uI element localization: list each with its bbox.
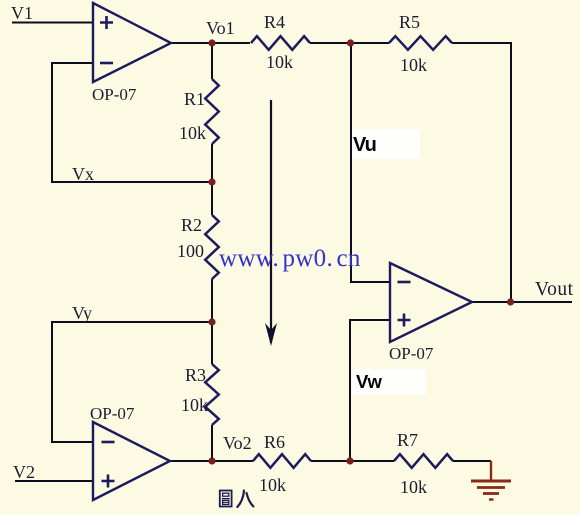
svg-text:OP-07: OP-07 xyxy=(90,404,135,423)
svg-text:10k: 10k xyxy=(179,123,206,143)
svg-text:Vu: Vu xyxy=(353,134,376,156)
svg-text:Vw: Vw xyxy=(356,371,383,392)
svg-text:Vout: Vout xyxy=(535,279,574,300)
svg-text:Vo2: Vo2 xyxy=(223,433,252,453)
svg-text:Vo1: Vo1 xyxy=(206,18,235,38)
svg-text:V1: V1 xyxy=(11,3,33,23)
svg-text:10k: 10k xyxy=(266,52,293,72)
svg-text:10k: 10k xyxy=(259,475,286,495)
svg-text:R2: R2 xyxy=(181,215,202,235)
svg-text:100: 100 xyxy=(177,241,204,261)
svg-text:V2: V2 xyxy=(13,462,35,482)
svg-text:R3: R3 xyxy=(185,365,206,385)
svg-text:10k: 10k xyxy=(400,55,427,75)
svg-text:R5: R5 xyxy=(399,12,420,32)
svg-text:10k: 10k xyxy=(181,395,208,415)
svg-text:Vy: Vy xyxy=(72,303,92,323)
svg-text:10k: 10k xyxy=(400,477,427,497)
svg-text:R4: R4 xyxy=(264,12,285,32)
svg-text:R7: R7 xyxy=(397,430,418,450)
svg-text:R1: R1 xyxy=(184,89,205,109)
svg-text:OP-07: OP-07 xyxy=(92,85,137,104)
svg-text:www.pw0.cn: www.pw0.cn xyxy=(219,245,361,272)
svg-text:OP-07: OP-07 xyxy=(389,344,434,363)
svg-text:R6: R6 xyxy=(264,432,285,452)
svg-text:Vx: Vx xyxy=(72,164,94,184)
